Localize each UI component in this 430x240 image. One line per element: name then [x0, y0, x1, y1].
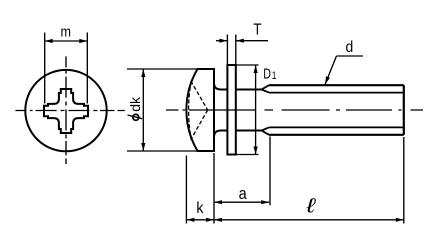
thread root line top	[269, 92, 404, 94]
neck fillet bottom	[214, 131, 227, 138]
dimension phi-dk: dimension line	[142, 69, 144, 151]
dimension m: dimension line	[45, 40, 88, 42]
dimension k: extension line left	[185, 156, 187, 224]
svg-text:D: D	[263, 65, 271, 82]
dimension a: right arrowhead	[261, 200, 269, 204]
svg-text:ℓ: ℓ	[305, 194, 316, 217]
dimension l: extension line right	[403, 137, 405, 224]
dimension m: right arrowhead	[79, 39, 87, 43]
shank between washer and thread, bottom line	[236, 130, 262, 132]
dimension T: left tail with arrowhead	[216, 40, 227, 42]
washer (side view)	[227, 65, 235, 155]
node center-line axis (side view)	[166, 109, 423, 111]
svg-text:T: T	[253, 22, 261, 39]
dimension D1: bottom arrowhead	[254, 147, 258, 155]
cross recess (phillips) outline	[44, 89, 88, 133]
svg-text:a: a	[239, 185, 247, 203]
dimension phi-dk: top arrowhead	[141, 69, 145, 77]
thread crest line bottom	[269, 134, 404, 136]
svg-text:1: 1	[272, 70, 277, 83]
svg-text:d: d	[346, 39, 354, 56]
dimension m: extension line left	[44, 33, 46, 104]
dimension k: dimension line	[186, 219, 214, 221]
dimension T: right tail with arrowhead	[236, 40, 268, 42]
thread start taper bottom	[262, 127, 270, 134]
dimension D1: dimension line	[255, 65, 257, 155]
shank between washer and thread, top line	[236, 89, 262, 91]
neck fillet top	[214, 83, 227, 90]
node center-line horizontal (top view)	[15, 110, 125, 112]
dimension k: right arrowhead	[206, 218, 214, 222]
label phi symbol	[133, 114, 139, 120]
dimension phi-dk: extension line bottom	[127, 150, 197, 152]
dimension l: left arrowhead	[214, 218, 222, 222]
head outline circle (top view)	[25, 70, 106, 151]
thread root line bottom	[269, 126, 404, 128]
dimension D1: top arrowhead	[254, 65, 258, 73]
dimension l: right arrowhead	[396, 218, 404, 222]
dimension phi-dk: bottom arrowhead	[141, 143, 145, 151]
dimension k: extension line right	[213, 153, 215, 224]
shank end face	[403, 85, 405, 135]
dimension D1: extension line bottom	[237, 154, 259, 156]
dimension m: extension line right	[86, 33, 88, 104]
thread start taper top	[262, 85, 270, 92]
dimension T: extension line left	[226, 35, 228, 65]
dimension D1: extension line top	[237, 64, 259, 66]
svg-text:dk: dk	[127, 96, 143, 112]
svg-text:k: k	[196, 199, 203, 217]
dimension a: dimension line	[214, 201, 269, 203]
leader d: diagonal line	[325, 56, 337, 85]
node center-line vertical (top view)	[65, 56, 67, 164]
dimension l: dimension line	[214, 219, 404, 221]
dimension m: left arrowhead	[45, 39, 53, 43]
leader d: arrowhead	[325, 76, 330, 84]
dimension T: extension line right	[235, 35, 237, 65]
thread crest line top	[269, 84, 404, 86]
dimension a: left arrowhead	[214, 200, 222, 204]
leader d: horizontal line	[337, 55, 364, 57]
dimension a: extension line right	[269, 137, 271, 206]
hidden recess arc (dashed)	[189, 81, 192, 140]
dimension k: left arrowhead	[186, 218, 194, 222]
hidden recess cone lower line (dashed)	[191, 110, 208, 140]
dimension phi-dk: extension line top	[127, 68, 197, 70]
pan head outline (side view)	[186, 69, 214, 151]
hidden recess cone upper line (dashed)	[191, 81, 208, 110]
svg-text:m: m	[61, 23, 72, 40]
